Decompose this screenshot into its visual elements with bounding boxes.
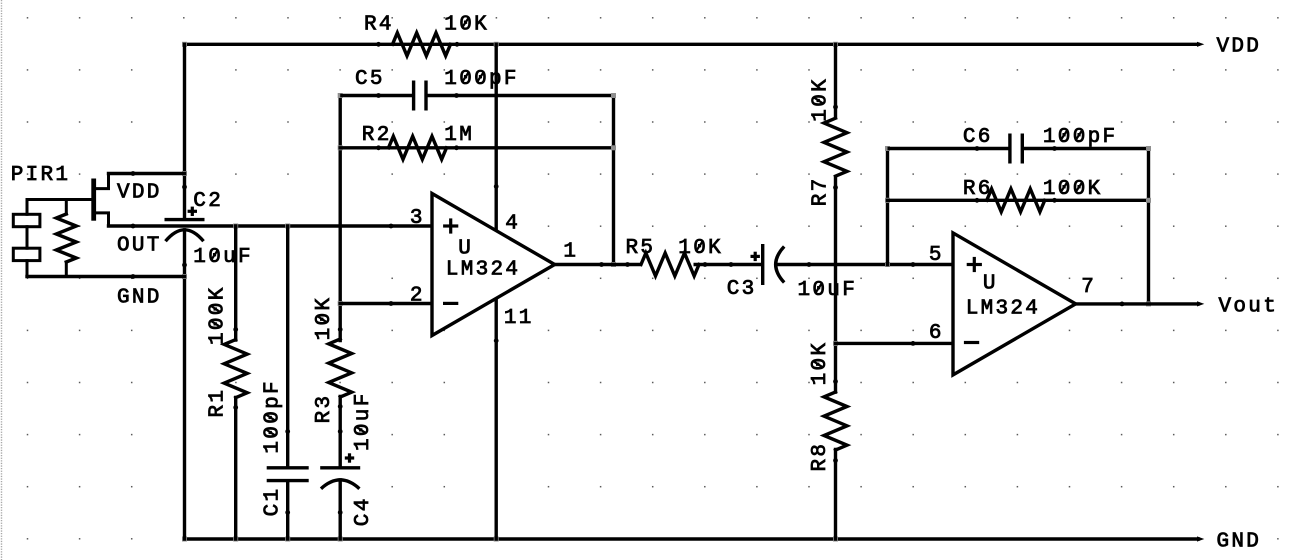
resistor R5 10K — [625, 253, 707, 276]
svg-text:R8: R8 — [809, 442, 832, 472]
svg-text:7: 7 — [1081, 276, 1096, 299]
power flag Vout — [1197, 301, 1204, 306]
svg-text:R5: R5 — [626, 237, 656, 260]
svg-text:R7: R7 — [810, 176, 833, 206]
resistor R6 100K — [975, 189, 1057, 212]
wire op-amp1 pin4 power — [495, 44, 498, 230]
svg-text:100pF: 100pF — [262, 379, 285, 454]
svg-text:VDD: VDD — [117, 182, 162, 205]
wire R2 row — [340, 146, 613, 149]
sensor PIR1 — [13, 171, 135, 279]
svg-text:100K: 100K — [1043, 178, 1103, 201]
junction bottom rail / C1 — [285, 537, 290, 542]
wire VDD feed down to C2 — [183, 44, 186, 218]
wire feedback1 right column — [612, 96, 615, 265]
svg-text:10K: 10K — [810, 77, 833, 122]
svg-text:C5: C5 — [355, 68, 385, 91]
junction feedback2-left / C6 — [885, 146, 890, 151]
svg-text:U: U — [458, 238, 473, 261]
junction GND pin wire end — [182, 274, 187, 279]
svg-text:11: 11 — [504, 307, 534, 330]
junction feedback2-right / R6 — [1146, 198, 1151, 203]
wire PIR VDD pin — [109, 172, 185, 175]
capacitor C2 10uF — [165, 185, 205, 268]
wire C6 row — [888, 147, 1009, 150]
wire PIR GND pin — [27, 275, 185, 278]
power flag GND — [1197, 536, 1204, 541]
junction OUT / C1 — [285, 224, 290, 229]
svg-text:10uF: 10uF — [352, 391, 375, 451]
wire output1 / R5 / C3 / pin5 row — [555, 263, 639, 266]
wire GND bottom rail — [185, 537, 1199, 540]
junction top rail / VDD feed — [182, 42, 187, 47]
svg-text:100pF: 100pF — [1043, 126, 1118, 149]
resistor R8 10K — [824, 379, 847, 463]
svg-text:R6: R6 — [963, 178, 993, 201]
capacitor C5 100pF — [376, 81, 459, 111]
junction feedback2-right / output2 — [1146, 301, 1151, 306]
resistor R3 10K — [329, 327, 352, 409]
svg-text:C3: C3 — [727, 278, 757, 301]
wire C2 bottom to GND rail — [183, 230, 186, 539]
wire op-amp2 pin 6 — [836, 342, 954, 345]
svg-text:5: 5 — [929, 244, 944, 267]
resistor R1 100K — [224, 327, 247, 410]
svg-text:R4: R4 — [364, 14, 394, 37]
svg-text:10K: 10K — [313, 296, 336, 341]
junction feedback1-right / C5 — [611, 93, 616, 98]
svg-text:3: 3 — [410, 207, 425, 230]
wire PIR OUT to op-amp pin 3 — [109, 224, 433, 227]
capacitor C4 10uF — [320, 429, 360, 515]
wire C1 column — [286, 226, 289, 466]
svg-text:R3: R3 — [313, 394, 336, 424]
capacitor C6 100pF — [975, 134, 1057, 164]
svg-text:C2: C2 — [193, 190, 223, 213]
junction divider / pin6 wire — [833, 341, 838, 346]
junction VDD pin wire end — [182, 171, 187, 176]
capacitor C1 100pF — [267, 429, 309, 515]
svg-text:10uF: 10uF — [798, 279, 858, 302]
junction feedback1-left / R2 — [338, 145, 343, 150]
junction feedback1-left / pin2 wire — [338, 301, 343, 306]
junction bottom rail / R8 — [833, 537, 838, 542]
svg-text:4: 4 — [505, 213, 520, 236]
svg-text:100K: 100K — [207, 285, 230, 345]
svg-text:Vout: Vout — [1219, 296, 1279, 319]
capacitor C3 10uF polarized — [729, 244, 812, 285]
wire R6 row — [888, 199, 1149, 202]
junction OUT / R1 — [233, 224, 238, 229]
op-amp U1 LM324 (unit A) — [389, 184, 604, 343]
wire C5 row — [340, 94, 412, 97]
svg-text:2: 2 — [410, 285, 425, 308]
wire R1 column — [234, 226, 237, 340]
resistor R2 1M — [376, 136, 459, 159]
svg-text:LM324: LM324 — [966, 298, 1041, 321]
svg-text:1: 1 — [563, 240, 578, 263]
svg-text:OUT: OUT — [117, 235, 162, 258]
junction bottom rail / C4 — [338, 537, 343, 542]
junction feedback1-left / C5 — [338, 93, 343, 98]
junction top rail / divider line — [833, 42, 838, 47]
svg-text:PIR1: PIR1 — [11, 164, 71, 187]
wire VDD top rail — [185, 43, 1199, 46]
svg-text:10K: 10K — [809, 341, 832, 386]
wire feedback2 left column — [886, 149, 889, 265]
svg-text:C1: C1 — [262, 487, 285, 517]
svg-text:VDD: VDD — [1217, 36, 1262, 59]
svg-text:C6: C6 — [963, 126, 993, 149]
junction feedback1-right / output1 — [611, 262, 616, 267]
op-amp U2 LM324 (unit B) — [911, 233, 1125, 375]
svg-text:GND: GND — [117, 287, 162, 310]
wire op-amp1 pin11 power — [495, 299, 498, 539]
junction pin5 row / feedback2-left — [885, 262, 890, 267]
wire op-amp1 pin 2 — [340, 302, 432, 305]
resistor R7 10K — [824, 105, 847, 190]
resistor R4 10K — [376, 33, 459, 56]
junction bottom rail / R1 — [233, 537, 238, 542]
svg-text:100pF: 100pF — [444, 68, 519, 91]
svg-text:C4: C4 — [352, 496, 375, 526]
svg-text:10K: 10K — [444, 14, 489, 37]
junction bottom rail / VDD-C2 column — [182, 537, 187, 542]
junction top rail / pin4 line — [494, 42, 499, 47]
junction feedback2-left / R6 — [885, 198, 890, 203]
junction feedback2-right / C6 — [1146, 146, 1151, 151]
svg-text:10K: 10K — [678, 237, 723, 260]
junction bottom rail / pin11 line — [494, 537, 499, 542]
svg-text:10uF: 10uF — [193, 246, 253, 269]
svg-text:U: U — [983, 273, 998, 296]
power flag VDD — [1197, 42, 1204, 47]
svg-text:LM324: LM324 — [446, 259, 521, 282]
svg-text:R2: R2 — [362, 124, 392, 147]
wire output2 to Vout — [1076, 302, 1198, 305]
svg-text:GND: GND — [1217, 531, 1262, 554]
wire feedback2 right column — [1147, 149, 1150, 304]
svg-text:R1: R1 — [207, 388, 230, 418]
junction feedback1-right / R2 — [611, 145, 616, 150]
wire divider column R7-R8 — [834, 44, 837, 117]
svg-text:6: 6 — [929, 322, 944, 345]
svg-text:1M: 1M — [444, 124, 474, 147]
wire feedback1 left / R3 / C4 column — [339, 96, 342, 341]
